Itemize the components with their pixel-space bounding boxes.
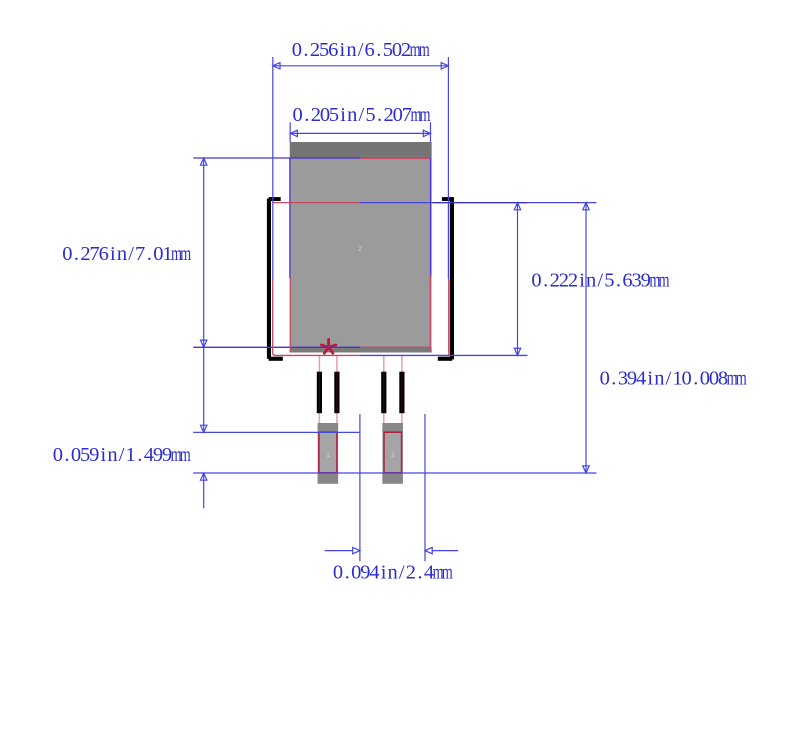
svg-text:0.276in/7.01: 0.276in/7.01 [62, 243, 172, 265]
svg-text:1: 1 [326, 452, 330, 459]
courtyard bottom (indigo half) + extension to 0.222 dim [359, 354, 527, 356]
package tab (top strip) [290, 142, 432, 158]
courtyard top (red half) [273, 202, 360, 204]
pin 1 marker (asterisk) [321, 339, 335, 353]
0.256in extension line left [272, 57, 274, 279]
svg-text:0.205in/5.207: 0.205in/5.207 [293, 104, 412, 126]
svg-text:m: m [420, 104, 431, 126]
svg-text:3: 3 [391, 452, 395, 459]
courtyard left (red) + rounded bottom corner + bottom (red half) [273, 279, 360, 355]
pad 1 outline [319, 432, 337, 473]
pad 3 outline [384, 432, 402, 473]
body outline bottom (red half) [361, 346, 431, 348]
svg-text:0.394in/10.008: 0.394in/10.008 [600, 368, 729, 390]
courtyard right (red) [448, 279, 450, 356]
0.205in extension line right [430, 122, 432, 142]
svg-text:m: m [180, 243, 191, 265]
pad 1 copper [318, 423, 339, 484]
body outline top (red half) [361, 157, 431, 159]
svg-text:m: m [736, 368, 747, 390]
body outline right (indigo) [430, 158, 432, 276]
lead 3 right bar [399, 372, 404, 414]
0.094in left arrow [325, 550, 353, 552]
svg-text:2: 2 [358, 245, 362, 252]
package bottom strip [290, 348, 432, 353]
svg-text:m: m [419, 39, 430, 61]
0.276in dimension line [203, 158, 205, 432]
0.205in dimension line [290, 132, 430, 134]
svg-text:0.094in/2.4: 0.094in/2.4 [333, 562, 434, 584]
package body [290, 142, 432, 353]
pad 3 copper [382, 423, 403, 484]
0.394in dimension line [585, 203, 587, 473]
0.222in dimension line [517, 203, 519, 356]
lead 3 left bar [381, 372, 386, 414]
svg-text:m: m [180, 444, 191, 466]
0.205in extension line left [289, 122, 291, 142]
svg-text:m: m [658, 270, 669, 292]
svg-text:0.059in/1.499: 0.059in/1.499 [53, 444, 172, 466]
svg-text:0.222in/5.639: 0.222in/5.639 [531, 270, 650, 292]
svg-text:m: m [442, 562, 453, 584]
body outline right (red) [429, 276, 431, 352]
body outline top (indigo half) + 0.276in top extension [193, 157, 360, 159]
0.094in extension line right [424, 414, 426, 561]
0.256in dimension line [273, 65, 449, 67]
left bracket [267, 199, 271, 359]
0.222in top extension overlap [433, 202, 528, 204]
lead 3 wire (right outer) [401, 356, 403, 424]
svg-text:0.256in/6.502: 0.256in/6.502 [292, 39, 411, 61]
0.256in extension line right [447, 57, 449, 279]
right bracket [450, 199, 454, 360]
lead 1 wire (left outer) [318, 356, 320, 424]
0.059in top extension line [193, 431, 359, 433]
0.059in lower pointer [203, 473, 205, 508]
lead 1 left bar [317, 372, 322, 414]
body outline left (indigo) [289, 158, 291, 278]
lead 1 right bar [334, 372, 339, 414]
courtyard top (indigo half) + extension to right dims [360, 202, 596, 204]
lead 1 wire (left inner) [336, 356, 338, 424]
0.059in bottom extension line (shared with 0.394) [193, 472, 596, 474]
body outline bottom (indigo half) + 0.276in bottom extension [193, 346, 360, 348]
0.094in right arrow [432, 550, 458, 552]
body outline left (red) [289, 278, 291, 352]
lead 3 wire (right inner) [383, 356, 385, 424]
0.094in extension line left [359, 414, 361, 561]
